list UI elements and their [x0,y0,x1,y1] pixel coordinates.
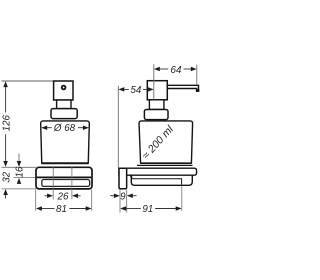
pump neck side [149,100,164,110]
svg-text:16: 16 [15,166,26,177]
9 extension lines [119,190,121,213]
pump neck front [57,100,71,109]
extension line holder bottom left [2,188,37,190]
dimension 64 [154,65,197,76]
dimension 32 [1,171,12,198]
pump head side [147,81,167,100]
extension line pump top left [2,80,54,82]
svg-text:81: 81 [56,204,67,215]
svg-text:9: 9 [120,191,126,202]
extension line holder top left [2,166,37,168]
holder cup side [130,175,192,185]
dimension 91 [120,204,181,215]
26 extension lines [52,167,54,199]
dimension 16 [15,154,26,184]
pump head front [54,81,73,100]
dimension diameter 68 [41,123,89,134]
pump button circle [62,86,66,90]
bottle bottom edge front [41,162,88,164]
svg-text:91: 91 [142,204,153,215]
spout [167,85,198,91]
glass bottle side [139,121,193,164]
dimension 26 [45,191,81,202]
glass bottle front [41,121,90,164]
dimension 126 [1,81,12,167]
svg-text:32: 32 [1,171,12,182]
dimension 81 [36,204,92,215]
dimension 54 [118,85,153,96]
81 extension lines [35,190,37,211]
holder back rim line side [137,164,193,166]
svg-text:26: 26 [57,191,69,202]
holder tray top line front [37,176,91,178]
wall extension line [117,86,119,168]
wall plate side [119,168,127,189]
extension line tray top left [14,177,38,179]
extension line spout tip [196,65,198,85]
holder outer front [36,167,92,189]
holder tray ledge side [132,175,182,184]
91 extension line right [181,186,183,211]
holder arm side [119,168,197,175]
bottle bottom edge side [140,162,192,164]
pump collar side [144,110,168,120]
svg-text:126: 126 [1,114,12,131]
extension line plunger axis [153,64,155,99]
svg-text:54: 54 [130,85,141,96]
svg-text:64: 64 [171,65,182,76]
holder tray front [42,180,90,187]
svg-text:Ø 68: Ø 68 [53,123,76,134]
pump collar front [51,109,77,119]
dimension 9 [110,191,136,202]
